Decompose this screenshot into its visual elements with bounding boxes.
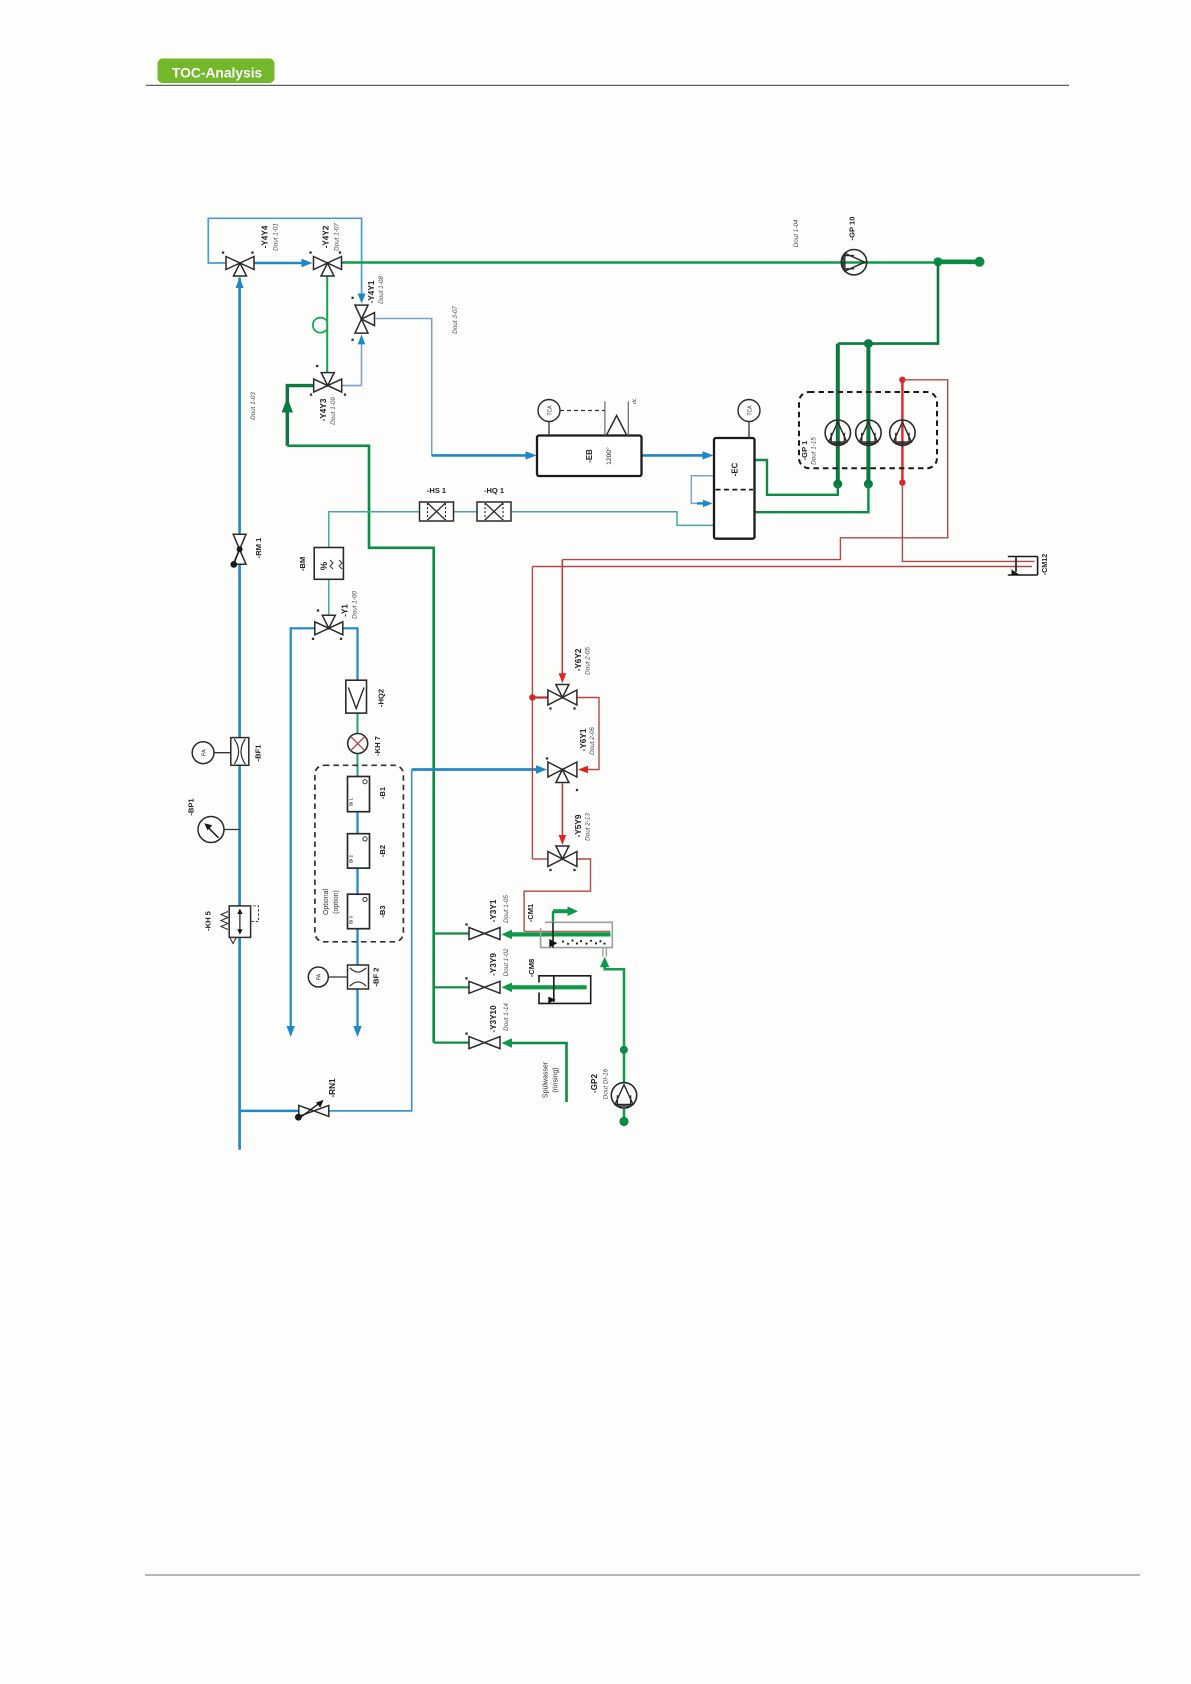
wire green branch to Y3Y10 — [434, 1041, 470, 1043]
pump GP1-3 — [890, 420, 915, 445]
svg-text:-Y3Y9: -Y3Y9 — [489, 953, 498, 976]
wire green GP2 suction stub — [623, 1108, 626, 1120]
wire blue inlet loop top-left (Y4Y4 left to Y4Y1 top) — [208, 218, 365, 303]
node green terminal dot below GP2 — [619, 1117, 628, 1126]
wire red Y5Y9 right to CM1 — [524, 859, 590, 931]
label GP1 — [800, 437, 818, 465]
node green dot above GP2 — [620, 1046, 628, 1054]
label Y3Y10 — [489, 1003, 510, 1033]
label Y4Y3 — [319, 397, 337, 425]
svg-text:Dout 2-05: Dout 2-05 — [585, 647, 592, 675]
svg-text:Dout 1-03: Dout 1-03 — [250, 392, 257, 420]
wire blue RN1 right up to Y6Y1 feed — [329, 770, 412, 1111]
svg-text:Dout 1-05: Dout 1-05 — [503, 895, 510, 923]
wire teal BM up to HS1 — [329, 512, 420, 548]
svg-text:Dout 2-06: Dout 2-06 — [589, 727, 596, 755]
detector EC — [714, 438, 755, 539]
exhaust port dL at EB — [605, 398, 638, 436]
valve Y4Y4 (3-way) — [222, 251, 254, 276]
header badge TOC-Analysis — [158, 59, 275, 84]
svg-text:TCA: TCA — [548, 405, 554, 416]
svg-text:Dout 1-08: Dout 1-08 — [378, 276, 385, 304]
svg-text:-GP 1: -GP 1 — [800, 440, 809, 460]
svg-text:Dout 1-02: Dout 1-02 — [503, 948, 510, 976]
wire blue thick into EB — [432, 451, 537, 459]
svg-text:TOC-Analysis: TOC-Analysis — [172, 66, 263, 81]
valve Y6Y2 (3-way) — [548, 685, 577, 710]
flow sensor BF2 with PA circle — [308, 965, 368, 989]
svg-text:-Y1: -Y1 — [341, 604, 350, 617]
svg-text:Dout 1-07: Dout 1-07 — [334, 223, 341, 251]
sensor B2 — [348, 834, 370, 868]
label Y1 — [341, 591, 359, 619]
wire teal KH7 to B1 — [357, 754, 359, 777]
svg-text:-HQ2: -HQ2 — [377, 689, 386, 707]
instrument TCA circle at EC — [738, 400, 760, 439]
valve KH7 (circle with X) — [348, 734, 368, 754]
wire green thick CM1 suction into Y3Y1 — [502, 930, 611, 940]
svg-text:-CM1: -CM1 — [526, 903, 535, 922]
wire red condensate line to CM12 lower — [532, 566, 1032, 568]
node junction GP1 header — [864, 339, 873, 348]
label Y3Y1 — [489, 895, 510, 923]
svg-text:(option): (option) — [333, 890, 340, 914]
wire blue Y1 left branch down with arrow — [287, 628, 315, 1037]
svg-text:-Y4Y3: -Y4Y3 — [319, 398, 328, 421]
svg-text:-BF1: -BF1 — [254, 744, 263, 762]
furnace EB — [537, 436, 642, 477]
svg-text:Optional: Optional — [323, 889, 330, 916]
svg-text:-B1: -B1 — [378, 786, 387, 799]
label Y4Y2 — [322, 223, 341, 251]
valve Y1 (3-way) — [312, 609, 343, 640]
wire red Y6Y1 bottom to Y5Y9 top with arrow — [559, 784, 567, 846]
svg-text:-Y4Y4: -Y4Y4 — [261, 225, 270, 248]
wire blue BF2 down with arrow — [353, 989, 361, 1037]
label GP2 — [590, 1068, 610, 1099]
svg-text:Dout 3-07: Dout 3-07 — [452, 306, 459, 334]
svg-text:BI 2: BI 2 — [349, 854, 354, 862]
optional dashed box B1-B3 — [315, 765, 404, 942]
wire blue B1 to B2 — [356, 812, 358, 834]
sensor B1 — [348, 777, 370, 812]
svg-text:BI 3: BI 3 — [349, 915, 354, 923]
wire blue Y1 right to HQ2 — [343, 628, 358, 680]
wire red into Y6Y2 left — [532, 696, 548, 698]
valve Y5Y9 (3-way) — [548, 846, 577, 871]
wire green thick CM8 suction into Y3Y9 — [502, 983, 587, 993]
svg-text:-EC: -EC — [731, 462, 740, 476]
wire teal HS1 to HQ1 — [454, 511, 478, 513]
wire red vertical to Y6Y2 top with arrow — [559, 560, 567, 684]
wire green CM1 overflow arrow — [553, 906, 578, 922]
vessel CM1 overflow cell — [541, 922, 613, 956]
node junction main green — [934, 257, 943, 266]
wire green rinse water into Y3Y10 — [502, 1038, 567, 1102]
svg-text:PA: PA — [317, 973, 323, 980]
valve Y4Y2 (3-way) — [309, 251, 341, 276]
node red dot bottom — [899, 479, 905, 485]
wire red loop pump3 to Y6Y2 feed — [562, 380, 947, 560]
wire green GP1 riser 2 (x=868.4) — [866, 344, 870, 484]
svg-text:Dout 1-15: Dout 1-15 — [811, 437, 818, 465]
wire dark green thick Y4Y3 left elbow with up arrow — [282, 386, 314, 446]
pump GP1-2 — [856, 420, 881, 445]
label GP10 — [793, 217, 857, 248]
node terminal dot green — [975, 257, 985, 267]
sample loop circle on green line — [313, 318, 326, 333]
svg-text:-Y6Y1: -Y6Y1 — [579, 728, 588, 751]
svg-text:Dout 1-00: Dout 1-00 — [352, 591, 359, 619]
label Y3Y9 — [489, 948, 510, 976]
svg-text:-RM 1: -RM 1 — [254, 537, 263, 558]
svg-text:-B2: -B2 — [378, 845, 387, 857]
wire red overflow into CM1 vessel — [524, 930, 610, 932]
svg-text:-Y4Y2: -Y4Y2 — [322, 225, 331, 248]
wire red Y6Y2 right loop to Y6Y1 right with arrow — [577, 698, 599, 774]
svg-text:%: % — [319, 561, 330, 570]
wire green GP1 riser 1 (x=837.8) — [836, 344, 840, 484]
svg-text:1200°: 1200° — [605, 447, 613, 465]
flow sensor BF1 with PA circle — [192, 738, 249, 766]
svg-text:(rinsing): (rinsing) — [553, 1067, 560, 1092]
node riser1 dot — [833, 480, 842, 489]
node red junction at Y6Y2 left — [529, 694, 535, 700]
wire teal BM down to Y1 — [328, 579, 330, 615]
svg-text:-CM8: -CM8 — [527, 959, 536, 978]
pressure regulator KH5 — [221, 906, 259, 944]
wire red pump3 riser — [901, 380, 903, 483]
svg-text:-EB: -EB — [585, 449, 594, 463]
label Y6Y2 — [574, 647, 592, 675]
svg-text:PA: PA — [202, 749, 208, 756]
label Y6Y1 — [579, 727, 596, 755]
svg-text:-KH 7: -KH 7 — [373, 736, 382, 756]
wire blue B3 to BF2 — [356, 929, 358, 965]
svg-text:Spülwasser: Spülwasser — [543, 1061, 550, 1098]
valve Y3Y1 — [465, 923, 500, 939]
svg-text:-RN1: -RN1 — [328, 1078, 337, 1098]
valve RM1 (manual, vertical) — [230, 534, 246, 568]
wire red pump3 to CM12 upper — [902, 483, 1034, 562]
drain pot CM12 — [1008, 557, 1038, 576]
svg-text:-HQ 1: -HQ 1 — [484, 486, 504, 495]
wire slate Y4Y3 right to Y4Y1 bottom — [342, 334, 366, 385]
pump GP10 — [841, 250, 866, 275]
svg-text:-HS 1: -HS 1 — [427, 486, 446, 495]
svg-text:Dout 1-04: Dout 1-04 — [793, 219, 800, 247]
svg-text:TCA: TCA — [748, 405, 754, 416]
svg-text:-GP 10: -GP 10 — [848, 217, 857, 241]
pump GP2 — [611, 1083, 636, 1108]
wire green branch to Y3Y1 — [434, 932, 470, 934]
canister HS1 — [420, 502, 454, 521]
wire green thick stub to terminal — [938, 259, 975, 264]
valve Y3Y9 — [465, 977, 500, 993]
pump GP1-1 — [825, 420, 850, 445]
valve Y4Y3 (3-way) — [310, 365, 346, 396]
wire green EC upper output to riser1 — [755, 460, 838, 495]
svg-text:-B3: -B3 — [378, 905, 387, 917]
wire green down from junction to GP1 header — [838, 262, 938, 344]
pressure gauge BP1 — [198, 817, 240, 843]
svg-text:Dout DI-16: Dout DI-16 — [603, 1068, 610, 1099]
filter HQ2 — [346, 680, 367, 713]
canister HQ1 — [477, 502, 511, 521]
wire green Z path to sample manifold — [287, 446, 433, 1043]
wire teal HQ2 to KH7 — [357, 713, 359, 733]
svg-text:-BP1: -BP1 — [187, 798, 196, 816]
svg-text:-Y5Y9: -Y5Y9 — [574, 814, 583, 837]
svg-text:Dout 1-01: Dout 1-01 — [273, 223, 280, 251]
wire green EC lower output to riser2 — [755, 484, 869, 512]
footer rule — [145, 1574, 1140, 1576]
svg-text:-BF 2: -BF 2 — [372, 968, 381, 987]
wire blue thick into Y6Y1 — [412, 765, 547, 773]
label EB — [585, 447, 613, 465]
label Optional option — [323, 889, 340, 916]
node riser2 dot — [864, 480, 873, 489]
wire slate EC bypass loop — [691, 476, 714, 507]
wire blue B2 to B3 — [356, 868, 358, 894]
wire slate Y4Y1 right to EB inlet — [376, 319, 432, 456]
label Y4Y4 — [261, 223, 280, 251]
instrument TCA circle at EB — [538, 400, 605, 436]
sensor B3 — [348, 894, 370, 929]
header rule — [146, 84, 1069, 86]
svg-text:-Y4Y1: -Y4Y1 — [367, 280, 376, 303]
wire green GP2 riser to CM1 outlet — [600, 957, 624, 1083]
svg-text:-GP2: -GP2 — [590, 1074, 599, 1094]
wire main sample blue vertical x=240 (Y4Y4 down to bottom) — [236, 278, 244, 1150]
svg-text:-CM12: -CM12 — [1040, 554, 1049, 576]
vessel CM8 — [539, 976, 591, 1004]
wire green main line Y4Y2 to GP10 to junction — [342, 261, 939, 263]
svg-text:Dout 1-09: Dout 1-09 — [330, 397, 337, 425]
valve Y6Y1 (3-way) — [546, 757, 578, 791]
svg-text:-Y3Y1: -Y3Y1 — [489, 899, 498, 922]
svg-text:-KH 5: -KH 5 — [204, 910, 213, 931]
instrument BM (percent box) — [314, 548, 343, 580]
label Y5Y9 — [574, 813, 592, 841]
wire blue arrow Y4Y4 to Y4Y2 — [254, 259, 313, 267]
label Y4Y1 — [367, 276, 385, 304]
svg-text:-Y3Y10: -Y3Y10 — [489, 1005, 498, 1033]
valve Y3Y10 — [465, 1032, 500, 1048]
valve Y4Y1 (3-way vertical) — [351, 297, 374, 341]
svg-text:BI 1: BI 1 — [349, 797, 354, 805]
label Spuelwasser rinsing — [543, 1061, 560, 1098]
wire blue thick EB to EC — [642, 451, 714, 459]
wire red drain corner into Y5Y9 left — [532, 858, 548, 860]
svg-text:-BM: -BM — [298, 557, 307, 571]
wire red vertical drain x=532.4 — [531, 567, 533, 860]
wire blue RN1 branch from main line — [240, 1110, 299, 1113]
needle valve RN1 — [295, 1100, 329, 1121]
wire teal HQ1 to EC — [511, 512, 715, 526]
node red dot top — [899, 377, 905, 383]
wire green Y4Y2 bottom to Y4Y3 top — [326, 277, 328, 373]
svg-text:-Y6Y2: -Y6Y2 — [574, 648, 583, 671]
wire green branch to Y3Y9 — [434, 986, 470, 988]
svg-text:Dout 1-14: Dout 1-14 — [503, 1003, 510, 1031]
svg-text:dL: dL — [632, 398, 638, 404]
svg-text:Dout 2-13: Dout 2-13 — [585, 813, 592, 841]
pump group GP1 dashed box — [799, 392, 937, 468]
